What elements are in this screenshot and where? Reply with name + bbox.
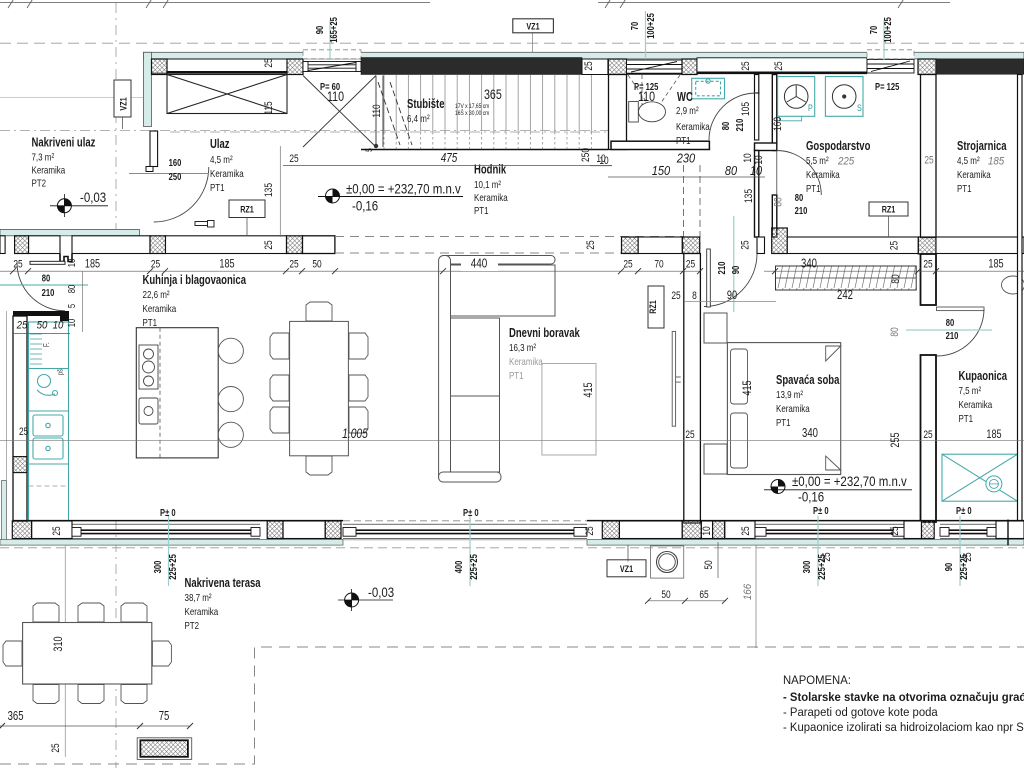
horizontal axis dashed line y43 <box>0 42 1024 44</box>
svg-text:25: 25 <box>924 155 933 167</box>
teal insulation strip north <box>144 52 1024 59</box>
svg-text:225+25: 225+25 <box>959 554 970 580</box>
svg-text:-0,03: -0,03 <box>368 585 394 600</box>
svg-text:25: 25 <box>740 526 752 535</box>
dim line row B main <box>0 270 700 272</box>
svg-text:25: 25 <box>671 290 680 302</box>
svg-text:110: 110 <box>327 88 344 104</box>
svg-text:VZ1: VZ1 <box>119 97 130 111</box>
pier hatched west in kitchen wall <box>13 457 27 473</box>
label ulaz <box>210 137 244 194</box>
shaft wall gosp west <box>755 75 777 238</box>
svg-text:Keramika: Keramika <box>957 169 991 181</box>
svg-text:5: 5 <box>364 148 374 152</box>
svg-text:VZ1: VZ1 <box>526 22 540 33</box>
svg-text:PT2: PT2 <box>185 620 200 632</box>
svg-text:160: 160 <box>169 158 182 169</box>
svg-text:PT1: PT1 <box>959 413 974 425</box>
svg-text:RZ1: RZ1 <box>240 205 254 216</box>
sofa back rail top <box>442 256 555 265</box>
stair bottom edge <box>361 149 608 151</box>
terrace chairs top <box>3 603 171 704</box>
dim ticks terrace <box>0 598 728 729</box>
svg-text:25: 25 <box>773 61 785 70</box>
teal strip west exterior <box>2 481 7 546</box>
svg-text:25: 25 <box>16 320 28 332</box>
mid wall white end <box>303 236 335 254</box>
svg-text:-0,03: -0,03 <box>80 190 106 205</box>
dim line kitchen 25-50-10 <box>13 333 70 335</box>
pier hatched M6 gosp <box>772 228 788 254</box>
svg-text:80: 80 <box>42 274 51 285</box>
svg-text:Kuhinja i blagovaonica: Kuhinja i blagovaonica <box>143 273 247 287</box>
shower <box>942 454 1018 501</box>
mid wall white continuing <box>72 236 150 254</box>
bottom teal dims <box>153 516 970 586</box>
svg-text:90: 90 <box>944 562 955 571</box>
svg-text:25: 25 <box>889 526 901 535</box>
nightstand top <box>704 313 727 343</box>
teal insulation corner NW vertical <box>144 52 152 126</box>
svg-text:185: 185 <box>219 257 234 271</box>
svg-text:400: 400 <box>454 560 465 573</box>
vertical line x487 top <box>532 33 534 52</box>
svg-text:25: 25 <box>740 240 752 249</box>
WC door swing <box>709 93 756 140</box>
svg-text:185: 185 <box>986 427 1001 441</box>
kupaonica door swing <box>937 309 984 356</box>
stair cut line dashed <box>378 82 412 145</box>
svg-text:50: 50 <box>661 589 670 601</box>
svg-text:4,5 m²: 4,5 m² <box>210 154 233 166</box>
kitchen door swing <box>17 263 65 311</box>
svg-text:Nakrivena terasa: Nakrivena terasa <box>185 576 262 590</box>
kupaonica door leaf <box>937 307 985 311</box>
WC washbasin <box>692 78 725 99</box>
svg-text:80: 80 <box>67 284 78 293</box>
svg-text:415: 415 <box>740 380 754 395</box>
svg-text:210: 210 <box>735 118 746 131</box>
svg-text:Strojarnica: Strojarnica <box>957 139 1007 153</box>
white backing 440 <box>461 256 498 271</box>
dim line row A under stairs <box>283 165 612 167</box>
window P=125 gospodarstvo <box>867 60 914 74</box>
svg-text:25: 25 <box>686 259 695 271</box>
svg-text:70: 70 <box>869 25 880 34</box>
sofa seat top <box>449 265 555 316</box>
svg-text:Keramika: Keramika <box>776 403 810 415</box>
svg-text:25: 25 <box>583 61 595 70</box>
mid wall white gosp bottom <box>787 237 918 254</box>
svg-text:415: 415 <box>581 382 595 397</box>
svg-text:5: 5 <box>67 304 78 309</box>
dim line 90 door y301.5 <box>684 301 776 303</box>
svg-text:25: 25 <box>50 743 62 752</box>
dim line vz1 bottom 50-65 <box>648 600 726 602</box>
dash-dot line through stairs <box>170 131 608 133</box>
label hodnik <box>474 163 508 218</box>
svg-text:Nakriveni ulaz: Nakriveni ulaz <box>32 136 96 150</box>
svg-text:160: 160 <box>772 117 784 131</box>
svg-text:50: 50 <box>37 320 49 332</box>
stair walk line with dot <box>374 144 378 148</box>
top border line with survey ticks <box>0 0 950 8</box>
vertical dim line x756 below building <box>755 545 757 648</box>
svg-text:PT1: PT1 <box>474 205 489 217</box>
svg-text:±0,00 = +232,70 m.n.v: ±0,00 = +232,70 m.n.v <box>792 474 907 489</box>
svg-text:VZ1: VZ1 <box>620 564 634 575</box>
svg-text:Keramika: Keramika <box>185 606 219 618</box>
svg-text:- Parapeti od gotove kote poda: - Parapeti od gotove kote poda <box>783 705 938 719</box>
pier hatched M4 <box>622 237 639 254</box>
window P=60 overhang dashed <box>303 50 361 59</box>
pier hatched N5 <box>918 59 936 75</box>
svg-text:22,6 m²: 22,6 m² <box>143 289 170 301</box>
svg-text:365: 365 <box>8 709 24 723</box>
svg-text:300: 300 <box>153 560 164 573</box>
svg-text:10,1 m²: 10,1 m² <box>474 179 501 191</box>
closet with X brace <box>167 75 287 114</box>
SE corner wall line <box>1007 520 1009 546</box>
pier hatched N3 <box>608 59 627 75</box>
svg-text:25: 25 <box>889 241 901 250</box>
svg-text:25: 25 <box>263 240 275 249</box>
svg-text:8: 8 <box>692 290 697 302</box>
marker bedroom 0,00 <box>764 474 912 505</box>
dash-dot axis y130 <box>0 130 620 132</box>
svg-text:225+25: 225+25 <box>469 554 480 580</box>
WC toilet bowl <box>639 102 666 122</box>
svg-text:-0,16: -0,16 <box>798 490 824 505</box>
sofa left rail <box>439 256 451 483</box>
svg-text:P= 125: P= 125 <box>875 82 900 93</box>
svg-text:25: 25 <box>151 259 160 271</box>
WC door leaf <box>755 93 759 140</box>
mid wall white M4-M5 <box>638 237 682 254</box>
svg-text:10: 10 <box>596 153 605 165</box>
svg-text:25: 25 <box>740 61 752 70</box>
svg-text:25: 25 <box>923 259 932 271</box>
label stubiste <box>407 86 502 125</box>
svg-text:PT1: PT1 <box>676 135 691 147</box>
svg-text:25: 25 <box>584 526 596 535</box>
svg-text:210: 210 <box>717 261 728 274</box>
svg-text:80: 80 <box>725 164 737 178</box>
svg-text:210: 210 <box>946 331 959 342</box>
svg-text:210: 210 <box>42 288 55 299</box>
svg-text:250: 250 <box>169 172 182 183</box>
svg-text:Keramika: Keramika <box>959 399 993 411</box>
svg-text:225+25: 225+25 <box>168 554 179 580</box>
top teal dims <box>315 11 894 60</box>
south window glazing W2 <box>343 524 587 538</box>
svg-text:135: 135 <box>743 189 755 203</box>
svg-text:310: 310 <box>51 636 65 651</box>
svg-text:90: 90 <box>727 288 737 302</box>
svg-text:Ulaz: Ulaz <box>210 137 230 151</box>
kupaonica sink oval <box>1002 276 1024 294</box>
svg-text:340: 340 <box>802 426 818 440</box>
pier hatched M5 <box>682 237 699 254</box>
marker hodnik 0,00 <box>318 182 463 214</box>
svg-text:110: 110 <box>638 88 655 104</box>
label nakriveni ulaz <box>32 136 96 190</box>
svg-text:Keramika: Keramika <box>143 303 177 315</box>
south window glazing W1 <box>72 524 260 538</box>
dining table <box>290 321 349 455</box>
west wall below door <box>146 167 153 172</box>
svg-text:70: 70 <box>630 21 641 30</box>
island outline <box>136 328 218 458</box>
label dnevni boravak <box>509 326 580 382</box>
svg-text:440: 440 <box>471 256 488 271</box>
VZ1 box top <box>513 19 554 33</box>
svg-text:P± 0: P± 0 <box>956 506 972 517</box>
kitchen door leaf <box>30 261 65 264</box>
svg-text:75: 75 <box>159 709 170 723</box>
teal riser line corridor <box>733 216 735 312</box>
svg-text:1.005: 1.005 <box>342 426 368 441</box>
vertical dim line x82 door chain <box>82 271 84 332</box>
mid wall white strojarnica bottom <box>936 237 1024 254</box>
south teal strip <box>0 540 343 546</box>
svg-text:10: 10 <box>753 155 765 164</box>
kitchen counter teal <box>29 322 69 521</box>
svg-text:- Stolarske stavke na otvorima: - Stolarske stavke na otvorima označuju … <box>783 690 1024 704</box>
svg-text:50: 50 <box>312 259 321 271</box>
svg-text:90: 90 <box>315 25 326 34</box>
label WC <box>676 90 710 147</box>
teal strip over mid wall west <box>0 229 139 235</box>
ulaz leaf against wall <box>195 222 213 226</box>
ulaz threshold teal line <box>129 173 209 175</box>
svg-text:80: 80 <box>773 197 785 206</box>
svg-text:90: 90 <box>731 265 742 274</box>
svg-text:Keramika: Keramika <box>806 169 840 181</box>
washing machine P <box>778 77 815 121</box>
svg-text:6,4 m²: 6,4 m² <box>407 113 430 125</box>
svg-text:Gospodarstvo: Gospodarstvo <box>806 139 871 153</box>
svg-text:25: 25 <box>289 259 298 271</box>
nightstand bottom <box>704 444 727 474</box>
svg-text:Keramika: Keramika <box>474 192 508 204</box>
svg-text:80: 80 <box>721 121 732 130</box>
svg-text:PT1: PT1 <box>210 182 225 194</box>
mid wall white to kitchen door <box>29 236 60 254</box>
svg-text:Keramika: Keramika <box>509 356 543 368</box>
svg-text:80: 80 <box>889 327 901 336</box>
svg-text:115: 115 <box>263 101 275 114</box>
svg-text:230: 230 <box>676 152 695 166</box>
chimney 50 dim vline <box>717 542 719 578</box>
corridor dashed opening edges <box>683 165 685 252</box>
dim line terrace 365-75 <box>0 725 191 727</box>
chimney circle <box>657 552 678 573</box>
svg-text:7,5 m²: 7,5 m² <box>959 385 982 397</box>
terrace table <box>23 623 152 685</box>
pier hatched N1 <box>152 59 168 75</box>
blanket fold <box>826 346 841 361</box>
porch west edge line <box>5 311 7 480</box>
svg-text:- Kupaonice izolirati sa hidro: - Kupaonice izolirati sa hidroizolaciom … <box>783 720 1024 734</box>
svg-text:RZ1: RZ1 <box>648 300 659 314</box>
svg-text:pš: pš <box>56 369 65 375</box>
svg-text:Stubište: Stubište <box>407 97 445 111</box>
svg-text:25: 25 <box>51 526 63 535</box>
kitchen top wall return <box>13 311 69 321</box>
svg-text:25: 25 <box>263 58 275 67</box>
svg-text:NAPOMENA:: NAPOMENA: <box>783 673 851 687</box>
pier hatched M2 <box>150 236 166 254</box>
TV on wall <box>672 331 675 426</box>
wardrobe hatched <box>776 266 917 290</box>
WC east wall <box>755 75 759 94</box>
svg-text:PT1: PT1 <box>957 183 972 195</box>
pier hatched N2 <box>287 59 303 75</box>
roofline thin y97 porch <box>0 97 143 99</box>
svg-text:105: 105 <box>740 102 752 116</box>
svg-text:185: 185 <box>988 156 1005 168</box>
opening dashed lines to living <box>335 236 683 238</box>
svg-text:WC: WC <box>677 90 693 104</box>
svg-text:10: 10 <box>750 164 762 178</box>
svg-text:16,3 m²: 16,3 m² <box>509 342 536 354</box>
pier hatched M3 <box>287 236 303 254</box>
svg-text:13,9 m²: 13,9 m² <box>776 389 803 401</box>
svg-text:P± 0: P± 0 <box>463 508 479 519</box>
window P=60 frame <box>303 62 361 72</box>
VZ1 box bottom <box>607 560 646 577</box>
stair east wall <box>609 75 627 150</box>
dimension ticks row B <box>10 268 939 274</box>
svg-text:25: 25 <box>623 259 632 271</box>
svg-text:-0,16: -0,16 <box>352 199 378 214</box>
kitchen sink unit <box>37 375 58 396</box>
south wall white segments <box>32 521 1024 539</box>
south window glazing W4 bath <box>940 524 996 538</box>
rug <box>542 364 596 456</box>
east wall <box>1018 75 1023 522</box>
svg-text:RZ1: RZ1 <box>882 205 896 216</box>
wall gosp/stroj separator <box>921 75 937 238</box>
svg-text:242: 242 <box>837 288 853 302</box>
fridge hatch <box>30 334 42 364</box>
RZ1 box rotated living <box>648 286 664 328</box>
svg-text:Kupaonica: Kupaonica <box>959 369 1008 383</box>
svg-text:80: 80 <box>890 274 902 283</box>
bedroom door swing (90) <box>704 254 757 307</box>
bar stools <box>218 338 243 363</box>
svg-text:80: 80 <box>795 193 804 204</box>
south piers hatched <box>12 521 934 539</box>
north wall solid strojarnica <box>936 59 1024 74</box>
sofa bottom rail <box>439 472 501 482</box>
kitchen double sink <box>33 415 63 459</box>
svg-text:135: 135 <box>263 183 275 197</box>
label kuhinja <box>143 273 247 329</box>
south window glazing W3 bedroom <box>755 524 904 538</box>
RZ1 box ulaz <box>229 200 265 218</box>
mid wall piece right of bedroom door <box>757 237 765 254</box>
svg-text:S: S <box>857 103 862 114</box>
svg-text:25: 25 <box>585 240 597 249</box>
svg-text:475: 475 <box>441 150 458 165</box>
pier hatched M7 <box>918 237 936 254</box>
pier hatched N4 <box>682 59 697 75</box>
svg-text:110: 110 <box>371 104 383 117</box>
terrace axis line x64 <box>64 545 66 757</box>
kitchen west wall <box>13 316 27 521</box>
pier hatched M1 <box>15 236 29 254</box>
mid wall west corner piece <box>0 236 5 254</box>
stair landing diagonals <box>303 76 383 148</box>
svg-text:4,5 m²: 4,5 m² <box>957 155 980 167</box>
svg-text:P± 0: P± 0 <box>813 506 829 517</box>
dim line bedroom row y440 <box>0 439 1024 441</box>
svg-text:PT2: PT2 <box>32 178 47 190</box>
label gospodarstvo <box>806 139 871 195</box>
svg-text:Keramika: Keramika <box>210 168 244 180</box>
pillows <box>731 349 748 404</box>
svg-text:±0,00 = +232,70 m.n.v: ±0,00 = +232,70 m.n.v <box>346 182 461 197</box>
bed <box>727 343 840 475</box>
gospodarstvo door swing <box>777 151 822 196</box>
svg-text:Dnevni boravak: Dnevni boravak <box>509 326 580 340</box>
svg-text:166: 166 <box>742 583 754 600</box>
svg-text:Keramika: Keramika <box>32 165 66 177</box>
ulaz door leaf <box>150 131 158 167</box>
svg-text:25: 25 <box>289 153 298 165</box>
svg-text:38,7 m²: 38,7 m² <box>185 592 212 604</box>
north wall solid behind stairs <box>361 58 582 75</box>
vertical axis x116 <box>115 3 117 237</box>
dryer S <box>825 77 863 117</box>
svg-text:16Š x 30,00 cm: 16Š x 30,00 cm <box>455 108 489 117</box>
svg-text:225: 225 <box>837 156 855 168</box>
svg-text:70: 70 <box>654 259 663 271</box>
svg-text:80: 80 <box>946 318 955 329</box>
VZ1 box rotated porch <box>114 80 131 117</box>
svg-text:25: 25 <box>923 429 932 441</box>
teal line y285 <box>0 284 88 286</box>
svg-text:225+25: 225+25 <box>817 554 828 580</box>
dim line row E wc <box>590 165 612 167</box>
svg-text:5,5 m²: 5,5 m² <box>806 155 829 167</box>
WC bottom wall <box>611 141 709 149</box>
svg-text:365: 365 <box>484 86 502 102</box>
svg-text:250: 250 <box>580 148 592 162</box>
stair treads <box>384 75 591 132</box>
svg-text:10: 10 <box>67 318 78 327</box>
grill hatched <box>137 738 192 760</box>
kitchen door jamb <box>60 254 72 262</box>
svg-text:2,9 m²: 2,9 m² <box>676 105 699 117</box>
svg-text:340: 340 <box>801 257 817 271</box>
svg-text:17V x 17,65 cm: 17V x 17,65 cm <box>455 103 489 110</box>
svg-text:10: 10 <box>67 258 78 267</box>
svg-text:7,3 m²: 7,3 m² <box>32 152 55 164</box>
svg-text:P: P <box>808 103 813 114</box>
svg-text:PT1: PT1 <box>776 417 791 429</box>
sofa seat2 <box>451 396 500 472</box>
kupaonica door dim line <box>906 329 992 331</box>
svg-text:Spavaća soba: Spavaća soba <box>776 373 840 387</box>
svg-text:300: 300 <box>802 560 813 573</box>
north wall white segment over closet <box>152 59 288 73</box>
svg-text:25: 25 <box>13 259 22 271</box>
svg-text:PT1: PT1 <box>509 370 524 382</box>
svg-text:Keramika: Keramika <box>676 121 710 133</box>
